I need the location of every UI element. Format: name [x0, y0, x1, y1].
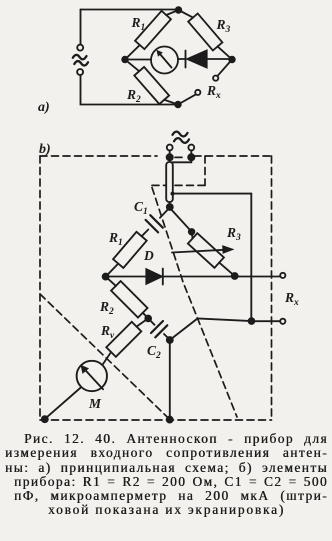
junction dot left lead on shield	[167, 154, 173, 160]
wire antenna left lead	[169, 151, 171, 163]
caption	[5, 432, 328, 518]
node right b	[232, 273, 238, 279]
svg-text:R1: R1	[108, 230, 123, 248]
wire sleeve to fan node	[169, 202, 171, 207]
meter a	[151, 47, 178, 74]
svg-text:R3: R3	[226, 225, 241, 243]
wire fan to C1	[160, 209, 168, 218]
diode D cathode bar	[162, 269, 164, 285]
node top a	[176, 7, 182, 13]
svg-text:a): a)	[38, 100, 50, 115]
RF squiggle b	[173, 132, 188, 137]
node R2/Rv/C2 junction	[145, 316, 151, 322]
wire junction to C2	[148, 318, 154, 324]
resistor R1 (a)	[135, 11, 171, 49]
wire R2 to bottom node a	[164, 100, 178, 105]
wire left node to meter a	[125, 59, 151, 61]
capacitor C2 plate 2	[155, 325, 167, 337]
node R3 top b	[189, 229, 195, 235]
wire fan to R3 b	[171, 210, 190, 231]
shield right edge	[271, 156, 273, 420]
wire left bottom drop a	[81, 75, 179, 105]
svg-text:M: M	[88, 396, 102, 411]
node Rx bottom line	[249, 318, 255, 324]
diode D triangle	[146, 269, 163, 285]
terminal Rx bottom b	[280, 319, 285, 324]
wire antenna right lead	[172, 151, 191, 163]
wire to Rx bottom terminal	[252, 320, 281, 322]
svg-text:Rx: Rx	[206, 83, 221, 101]
shield left edge	[39, 156, 41, 420]
shield notch vertical	[204, 156, 206, 185]
wire top node to R1 a	[166, 10, 178, 15]
shield diagonal meter partition	[40, 294, 169, 419]
wire top rail a	[81, 9, 179, 11]
wire meter to diode a	[178, 58, 185, 60]
wire detector line b	[106, 276, 280, 278]
resistor R2 (b)	[111, 281, 147, 317]
meter M circle	[77, 361, 107, 391]
wire top node to R3 a	[179, 10, 194, 18]
terminal antenna right b	[188, 145, 194, 151]
shield top edge between leads	[175, 156, 186, 158]
node C2 bottom	[167, 337, 173, 343]
shield bottom edge	[40, 419, 272, 421]
meter needle a	[160, 54, 172, 68]
wire R3 to right node a	[218, 46, 232, 59]
shield notch horizontal	[150, 184, 205, 186]
svg-text:C2: C2	[147, 343, 161, 361]
wire junction to Rv	[137, 318, 149, 326]
wire right vertical down	[250, 194, 252, 322]
svg-text:D: D	[143, 248, 154, 263]
terminal (RF source top) a	[77, 45, 83, 51]
wire diode to right node a	[207, 58, 232, 61]
wire C2 node down to shield	[169, 340, 171, 419]
node shield corner bottom-left	[42, 416, 48, 422]
resistor R3 (a)	[188, 13, 222, 50]
resistor Rv	[106, 322, 141, 357]
svg-text:R2: R2	[99, 299, 114, 317]
node bottom a	[175, 102, 181, 108]
shield top edge left part	[40, 155, 157, 157]
wire R1 to left node b	[106, 264, 118, 277]
node right a	[229, 57, 235, 63]
node left b	[103, 274, 109, 280]
terminal (RF source bottom) a	[77, 69, 83, 75]
meter M needle arrowhead	[81, 366, 88, 373]
diode VD (a) triangle	[187, 50, 208, 68]
wire tap to right vertical	[173, 193, 252, 195]
R3 wiper arrow line	[172, 250, 224, 253]
svg-text:b): b)	[39, 142, 51, 157]
diode VD (a) cathode bar	[185, 51, 187, 68]
junction tap on sleeve	[171, 192, 175, 196]
wire left node to R2 b	[106, 277, 116, 286]
terminal Rx top b	[280, 273, 285, 278]
wire R2 to junction	[143, 313, 148, 318]
wire Rv to meter M	[103, 352, 112, 365]
wire right node to Rx terminal a	[217, 60, 232, 77]
svg-text:C1: C1	[134, 199, 148, 217]
wire C2 to node	[164, 334, 170, 340]
resistor R2 (a)	[134, 67, 169, 104]
svg-text:Rv: Rv	[100, 323, 115, 341]
shield top edge right part	[194, 155, 272, 157]
resistor R3 (b)	[188, 233, 224, 268]
wire left node to R2 a	[125, 60, 139, 72]
capacitor C1 plate 2	[146, 220, 159, 233]
node (bridge top) fan dot	[167, 204, 173, 210]
shield dashed border	[40, 156, 272, 420]
shield diagonal C partition	[152, 188, 237, 418]
terminal Rx lower a	[195, 90, 200, 95]
node left a	[122, 57, 128, 63]
capacitor C2 plate 1	[151, 321, 163, 333]
terminal antenna left b	[167, 145, 173, 151]
resistor R1 (b)	[113, 232, 147, 268]
wire R3 to right node b	[219, 263, 234, 276]
svg-text:R2: R2	[126, 87, 141, 105]
wire meter to shield corner	[45, 388, 81, 419]
wire left drop a	[80, 10, 82, 45]
svg-text:R3: R3	[216, 17, 231, 35]
wire R3 dot to rect b	[192, 232, 193, 239]
feeder sleeve rectangle	[166, 162, 173, 202]
meter M needle	[82, 367, 103, 390]
RF source squiggle a	[73, 55, 87, 59]
R3 wiper arrowhead	[223, 246, 233, 253]
svg-text:Rx: Rx	[284, 290, 299, 308]
wire R1 to left node a	[125, 45, 140, 60]
junction dot right lead on shield	[188, 154, 194, 160]
wire Rx terminal to bottom node a	[178, 94, 196, 104]
node shield bottom middle	[167, 417, 173, 423]
terminal Rx upper a	[213, 76, 218, 81]
wire C2 node to Rx bottom line	[170, 319, 252, 341]
capacitor C1 plate 1	[150, 215, 163, 228]
svg-text:R1: R1	[131, 15, 146, 33]
wire C1 to R1	[142, 230, 149, 237]
